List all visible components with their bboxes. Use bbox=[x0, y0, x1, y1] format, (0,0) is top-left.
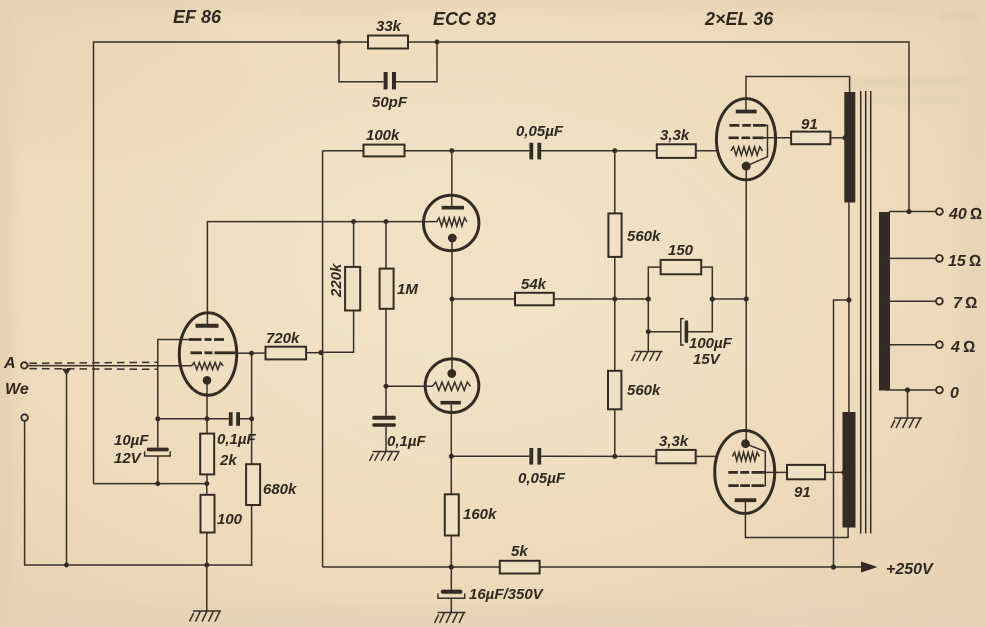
svg-text:15V: 15V bbox=[693, 351, 722, 368]
svg-text:680k: 680k bbox=[263, 481, 297, 498]
wire triode1 cathode lead bbox=[451, 238, 453, 299]
svg-text:150: 150 bbox=[668, 242, 694, 259]
wire tap 4ohm bbox=[886, 344, 936, 346]
node 1M-0.1uF-grid bbox=[384, 384, 389, 389]
wire shield dashed lower bbox=[30, 368, 158, 371]
tube ECC83 triode 1 envelope bbox=[424, 195, 479, 250]
resistor 3.3k lower bbox=[656, 433, 695, 463]
svg-text:A: A bbox=[3, 355, 16, 372]
wire EL36l screen to 91 bbox=[766, 471, 787, 473]
ground secondary bbox=[891, 418, 922, 428]
svg-text:33k: 33k bbox=[376, 18, 402, 35]
EL36l cathode dot bbox=[741, 439, 750, 448]
resistor 160k bbox=[445, 494, 497, 535]
svg-text:EF 86: EF 86 bbox=[173, 7, 222, 27]
node nfb-10uF bbox=[155, 481, 160, 486]
EF86 grid3 dashes bbox=[189, 338, 224, 341]
svg-text:16µF/350V: 16µF/350V bbox=[469, 586, 545, 603]
capacitor 0.1uF screen bbox=[217, 412, 256, 448]
node 560k top bbox=[612, 148, 617, 153]
shield tap triangle bbox=[62, 369, 71, 376]
wire 91 upper to primary bbox=[830, 137, 845, 139]
svg-text:0,05µF: 0,05µF bbox=[516, 123, 564, 140]
wire input center bbox=[28, 365, 192, 367]
ground 100uF bbox=[632, 352, 663, 362]
node triode1 anode bbox=[449, 148, 454, 153]
triode2 cathode dot bbox=[447, 369, 456, 378]
capacitor 16uF electrolytic bbox=[438, 586, 545, 603]
capacitor 0.05uF lower bbox=[518, 448, 566, 487]
capacitor 100uF electrolytic bbox=[681, 319, 733, 368]
svg-text:2k: 2k bbox=[219, 452, 237, 469]
wire cathode node horizontal bbox=[158, 418, 252, 420]
wire coupling line lower bbox=[451, 455, 716, 457]
EL36u cathode dot bbox=[742, 162, 751, 171]
wire tap 7ohm bbox=[886, 300, 936, 302]
svg-text:91: 91 bbox=[794, 484, 811, 501]
resistor 1M bbox=[380, 269, 419, 309]
wire primary link bbox=[848, 203, 850, 413]
svg-text:40 Ω: 40 Ω bbox=[948, 206, 982, 223]
wire common cathode node to triode2 bbox=[451, 299, 453, 374]
resistor 220k bbox=[328, 263, 360, 311]
wire bias node to cathodes bbox=[712, 298, 746, 300]
wire tap 15ohm bbox=[886, 257, 936, 259]
wire EL36u screen to 91 bbox=[764, 137, 791, 139]
wire EF86 cathode bbox=[206, 380, 208, 419]
tube EL36 lower envelope bbox=[715, 431, 775, 514]
svg-text:15 Ω: 15 Ω bbox=[948, 253, 981, 270]
label We bbox=[5, 381, 29, 398]
terminal 7ohm bbox=[936, 295, 977, 312]
wire anode rail EF86 to triode grid bbox=[207, 222, 436, 326]
wire 100k plate line bbox=[323, 150, 717, 152]
wire 1M branch bbox=[385, 222, 387, 387]
EF86 anode bar bbox=[196, 324, 219, 328]
wire screen node riser bbox=[251, 353, 253, 419]
capacitor 0.05uF upper bbox=[516, 123, 564, 159]
svg-text:100µF: 100µF bbox=[689, 335, 733, 352]
capacitor 10uF electrolytic bbox=[114, 432, 170, 467]
EL36l anode bar bbox=[735, 498, 757, 502]
wire 150 loop bbox=[648, 267, 712, 299]
wire shield dashed upper bbox=[30, 362, 158, 363]
svg-text:2×EL 36: 2×EL 36 bbox=[704, 9, 774, 29]
node triode2 anode corner bbox=[449, 454, 454, 459]
wire triode2 grid lead bbox=[386, 385, 433, 387]
node 33k left bbox=[337, 40, 342, 45]
EF86 cathode dot bbox=[203, 376, 212, 385]
svg-text:91: 91 bbox=[801, 116, 818, 133]
tube ECC83 triode 2 envelope bbox=[425, 359, 479, 413]
label EF 86 bbox=[173, 7, 222, 27]
node cathode-10uF bbox=[155, 416, 160, 421]
node 1M top bbox=[384, 219, 389, 224]
wire shield drop bbox=[66, 372, 68, 565]
svg-text:0,1µF: 0,1µF bbox=[217, 431, 256, 448]
wire ground rail left bbox=[25, 421, 251, 565]
wire B+ rail bottom bbox=[323, 566, 862, 568]
wire triode2 anode lead bbox=[450, 403, 452, 457]
svg-text:+250V: +250V bbox=[886, 561, 934, 578]
svg-text:160k: 160k bbox=[463, 506, 497, 523]
resistor 100 bbox=[201, 495, 243, 533]
resistor 2k bbox=[200, 434, 237, 475]
EL36u anode bar bbox=[736, 110, 757, 114]
resistor 91 lower bbox=[787, 465, 825, 501]
capacitor 0.1uF grid return bbox=[372, 416, 426, 450]
node EL36 cathode rail bbox=[744, 296, 749, 301]
resistor 33k bbox=[368, 18, 408, 49]
svg-text:12V: 12V bbox=[114, 450, 143, 467]
transformer core lines bbox=[861, 91, 871, 534]
resistor 680k bbox=[246, 464, 297, 505]
transformer primary winding upper bbox=[844, 92, 855, 203]
wire 50pF loop bbox=[339, 42, 437, 82]
terminal 40ohm bbox=[936, 206, 982, 223]
triode2 grid zigzag bbox=[433, 382, 471, 390]
tube EF86 envelope bbox=[179, 313, 236, 395]
terminal We bbox=[21, 414, 28, 421]
svg-text:ECC 83: ECC 83 bbox=[433, 9, 496, 29]
node 220k top bbox=[351, 219, 356, 224]
node bias right bbox=[710, 296, 715, 301]
label 2xEL 36 bbox=[704, 9, 774, 29]
wire center tap to B+ bbox=[834, 300, 849, 567]
node 560k bottom bbox=[612, 454, 617, 459]
wire 220k branch bbox=[321, 222, 354, 353]
wire 720k line bbox=[236, 352, 323, 355]
node divider mid bbox=[612, 297, 617, 302]
wire 560k chain riser bbox=[614, 151, 616, 457]
resistor 5k bbox=[500, 543, 540, 574]
resistor 720k bbox=[266, 330, 307, 359]
resistor 150 bbox=[661, 242, 702, 274]
wire 100uF loop bbox=[648, 299, 712, 332]
wire B+ riser bbox=[322, 151, 324, 567]
terminal A bbox=[3, 355, 27, 372]
node 91 upper tap bbox=[842, 135, 847, 140]
node 0.1uF-680k bbox=[249, 416, 254, 421]
wire 0 tap ground stem bbox=[907, 390, 909, 418]
node feedback takeoff bbox=[906, 209, 911, 214]
svg-text:0,1µF: 0,1µF bbox=[387, 433, 426, 450]
EL36l grid3 dashes bbox=[728, 484, 763, 487]
wire 0.1uF leads bbox=[385, 386, 387, 451]
svg-text:7 Ω: 7 Ω bbox=[953, 295, 977, 312]
node common cathode bbox=[450, 297, 455, 302]
node 33k right bbox=[435, 40, 440, 45]
wire feedback bottom to cathode node bbox=[94, 483, 207, 485]
node bias left bbox=[646, 296, 651, 301]
node B+ arrow tap bbox=[831, 564, 836, 569]
arrow +250V bbox=[861, 561, 934, 578]
wire EL36u anode lead bbox=[746, 77, 850, 112]
svg-text:4 Ω: 4 Ω bbox=[950, 339, 975, 356]
terminal 0 bbox=[936, 385, 959, 402]
triode1 anode bar bbox=[442, 206, 464, 210]
transformer secondary winding bbox=[879, 212, 890, 391]
ground 0.1uF bbox=[370, 452, 400, 461]
wire tap 0 bbox=[886, 389, 936, 391]
EL36l grid2 dashes bbox=[728, 471, 766, 474]
node screen-720k bbox=[249, 351, 254, 356]
resistor 91 upper bbox=[791, 116, 830, 144]
wire triode1 anode lead bbox=[451, 151, 453, 208]
svg-text:1M: 1M bbox=[397, 281, 418, 298]
EL36u grid3 dashes bbox=[729, 124, 766, 127]
node 0 ground tap bbox=[905, 387, 910, 392]
tube EL36 upper envelope bbox=[716, 99, 775, 180]
label ECC 83 bbox=[433, 9, 496, 29]
resistor 560k upper bbox=[608, 213, 661, 257]
svg-text:220k: 220k bbox=[328, 263, 345, 298]
capacitor 50pF bbox=[372, 72, 408, 111]
EL36u grid1 zigzag bbox=[731, 147, 763, 155]
svg-text:We: We bbox=[5, 381, 29, 398]
resistor 3.3k upper bbox=[657, 127, 696, 158]
ground main bbox=[190, 611, 222, 622]
node 720k right B+ bbox=[318, 350, 323, 355]
svg-text:0: 0 bbox=[950, 385, 959, 402]
svg-text:100k: 100k bbox=[366, 127, 400, 144]
EL36l grid1 zigzag bbox=[732, 452, 759, 460]
wire EF86 g3 tie bbox=[158, 340, 190, 419]
wire feedback top rail bbox=[94, 42, 910, 484]
wire 100uF ground stem bbox=[647, 332, 649, 351]
svg-text:50pF: 50pF bbox=[372, 94, 408, 111]
resistor 54k bbox=[515, 276, 554, 305]
wire 160k branch bbox=[450, 456, 452, 567]
wire 100 leads bbox=[206, 484, 208, 565]
triode1 cathode dot bbox=[448, 234, 457, 243]
svg-text:0,05µF: 0,05µF bbox=[518, 470, 566, 487]
svg-text:3,3k: 3,3k bbox=[660, 127, 690, 144]
node shield-rail bbox=[64, 563, 69, 568]
wire main ground stem bbox=[206, 565, 208, 611]
node cathode-rail ground bbox=[204, 563, 209, 568]
svg-text:5k: 5k bbox=[511, 543, 528, 560]
svg-text:720k: 720k bbox=[266, 330, 300, 347]
svg-text:10µF: 10µF bbox=[114, 432, 149, 449]
node 160k-16uF bbox=[449, 564, 454, 569]
wire 10uF branch bbox=[157, 419, 159, 484]
svg-text:560k: 560k bbox=[627, 382, 661, 399]
triode1 grid zigzag bbox=[437, 218, 468, 226]
EL36u grid2 dashes bbox=[729, 136, 764, 139]
EF86 grid2 dashes bbox=[191, 351, 237, 354]
wire 680k branch bbox=[250, 419, 251, 566]
resistor 100k bbox=[364, 127, 405, 156]
wire tap 40ohm bbox=[889, 211, 936, 213]
terminal 4ohm bbox=[936, 339, 975, 356]
wire 54k line bbox=[452, 298, 648, 300]
node primary center tap bbox=[846, 297, 851, 302]
EL36l grid3 tie to cathode bbox=[749, 445, 765, 485]
node nfb-cathode bbox=[204, 481, 209, 486]
EL36u grid3 tie to cathode bbox=[750, 125, 768, 164]
wire 16uF leads bbox=[450, 567, 452, 612]
EF86 grid1 zigzag bbox=[192, 362, 224, 369]
ground 16uF bbox=[435, 613, 466, 624]
wire 91 lower to primary bbox=[825, 471, 845, 473]
resistor 560k lower bbox=[608, 371, 661, 410]
node 91 lower tap bbox=[841, 470, 846, 475]
node cathode-2k bbox=[205, 416, 210, 421]
triode2 anode bar bbox=[441, 401, 461, 405]
transformer primary winding lower bbox=[843, 412, 856, 528]
wire 2k leads bbox=[206, 419, 208, 484]
node 100uF ground tap bbox=[646, 329, 651, 334]
wire EL36u cathode lead bbox=[745, 166, 747, 299]
wire EL36 lower cathode lead bbox=[745, 299, 747, 440]
svg-text:3,3k: 3,3k bbox=[659, 433, 689, 450]
svg-text:100: 100 bbox=[217, 511, 243, 528]
wire EL36l anode lead bbox=[745, 500, 848, 537]
svg-text:560k: 560k bbox=[627, 228, 661, 245]
terminal 15ohm bbox=[936, 253, 981, 270]
svg-text:54k: 54k bbox=[521, 276, 547, 293]
